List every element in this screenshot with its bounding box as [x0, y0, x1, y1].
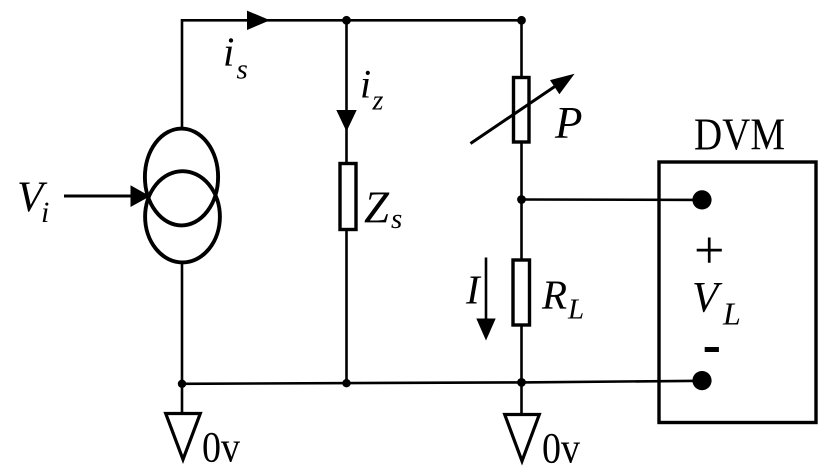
- wire node C to DVM top terminal: [522, 198, 703, 201]
- wire to right ground: [520, 382, 523, 415]
- svg-text:i: i: [41, 196, 49, 229]
- node A junction dot (top of Zs branch): [342, 16, 351, 25]
- current arrow I (beside RL): [485, 258, 488, 326]
- ground symbol right: [505, 415, 540, 462]
- svg-text:s: s: [237, 54, 248, 86]
- wire Zs bottom to ground rail: [345, 230, 348, 385]
- node dot source at ground rail: [178, 380, 186, 388]
- svg-text:z: z: [372, 86, 384, 117]
- DVM box: [659, 162, 816, 423]
- DVM bottom terminal dot: [692, 371, 711, 390]
- wire Zs branch vertical: [345, 20, 348, 162]
- label - (minus): [705, 347, 719, 352]
- ground rail wire: [182, 381, 702, 384]
- svg-text:i: i: [360, 62, 371, 107]
- node D junction dot at ground rail: [517, 378, 526, 387]
- current arrow i_z: [336, 110, 356, 132]
- DVM top terminal dot: [692, 190, 711, 209]
- svg-text:s: s: [391, 203, 402, 235]
- svg-text:Z: Z: [364, 183, 390, 233]
- impedance Z_s box: [340, 164, 356, 230]
- ground symbol left: [166, 414, 201, 460]
- svg-text:L: L: [567, 294, 584, 326]
- wire node C down to RL box: [520, 200, 523, 260]
- svg-text:0v: 0v: [202, 425, 240, 472]
- node C junction dot: [517, 195, 526, 204]
- svg-text:0v: 0v: [542, 426, 580, 473]
- resistor R_L box: [513, 260, 530, 325]
- wire RL bottom to ground rail: [520, 325, 523, 384]
- wire node B down to P box: [520, 20, 523, 77]
- svg-text:DVM: DVM: [694, 110, 785, 160]
- wire to left ground: [181, 384, 184, 414]
- node dot Zs at ground rail: [342, 379, 350, 387]
- current arrow i_s on top rail: [247, 11, 270, 30]
- wire P bottom to node C: [520, 142, 523, 200]
- svg-text:i: i: [223, 29, 234, 75]
- svg-text:R: R: [541, 271, 567, 317]
- potentiometer arrow (diagonal): [471, 85, 558, 144]
- input arrow into current source: [64, 195, 134, 198]
- wire source bottom to ground rail: [181, 263, 184, 385]
- current source U1 (overlapping circles): [145, 129, 218, 226]
- svg-text:I: I: [465, 267, 482, 313]
- node B junction dot (top of P branch): [517, 16, 526, 25]
- svg-text:+: +: [694, 220, 724, 280]
- svg-text:P: P: [554, 98, 583, 148]
- potentiometer P box: [514, 78, 530, 143]
- svg-text:L: L: [722, 296, 741, 332]
- wire top rail from source to node B: [182, 20, 522, 130]
